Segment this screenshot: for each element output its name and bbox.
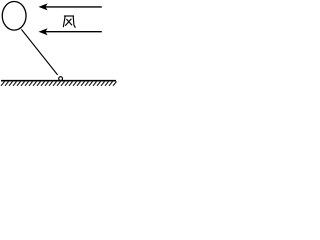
physics diagram: balloon on string in wind bbox=[0, 0, 117, 89]
wind arrow 2 (bottom, pointing left) bbox=[39, 28, 102, 35]
anchor ring on ground bbox=[59, 77, 63, 81]
balloon (ellipse) bbox=[2, 2, 26, 31]
ground hatching bbox=[1, 82, 117, 86]
wind arrow 1 (top, pointing left) bbox=[39, 3, 102, 10]
string (balloon to anchor) bbox=[21, 29, 57, 75]
label 风 (wind) drawn as strokes bbox=[63, 16, 75, 28]
ground line bbox=[1, 80, 116, 82]
